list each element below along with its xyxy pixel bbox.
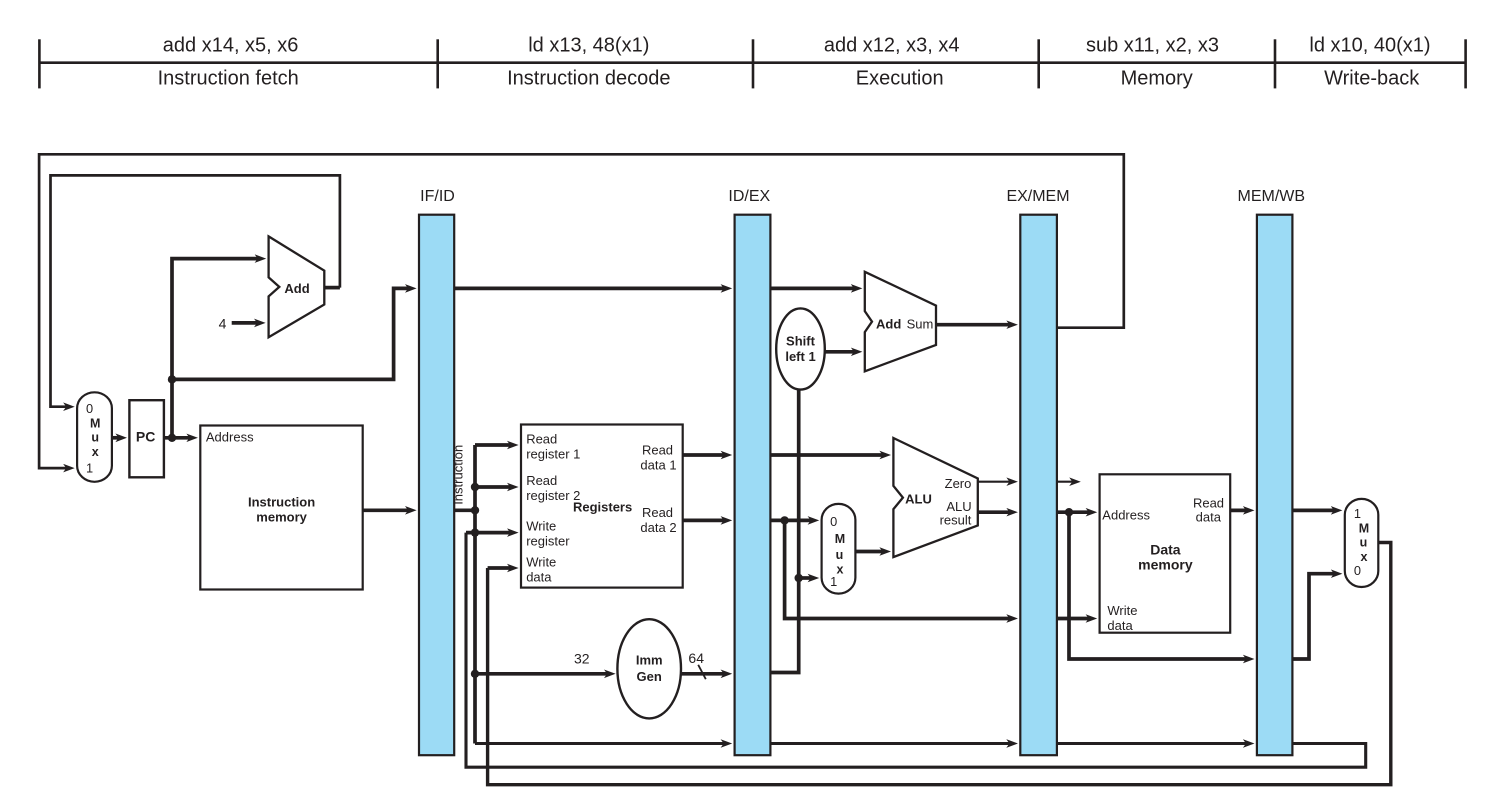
svg-text:u: u xyxy=(1360,536,1368,550)
svg-text:Write-back: Write-back xyxy=(1324,68,1420,90)
svg-text:1: 1 xyxy=(830,574,837,589)
svg-text:0: 0 xyxy=(1354,563,1361,578)
svg-text:register: register xyxy=(526,534,570,549)
svg-text:32: 32 xyxy=(574,651,590,667)
svg-text:PC: PC xyxy=(136,429,155,445)
svg-text:Write: Write xyxy=(526,519,556,534)
svg-text:Zero: Zero xyxy=(945,476,972,491)
svg-text:data: data xyxy=(1107,618,1133,633)
svg-text:4: 4 xyxy=(219,316,227,332)
svg-text:Read: Read xyxy=(642,505,673,520)
svg-text:ld x10, 40(x1): ld x10, 40(x1) xyxy=(1309,35,1430,57)
svg-text:x: x xyxy=(92,445,99,459)
svg-text:Instruction decode: Instruction decode xyxy=(507,68,670,90)
svg-text:1: 1 xyxy=(86,461,93,476)
svg-text:memory: memory xyxy=(256,510,307,525)
svg-text:result: result xyxy=(940,513,972,528)
svg-text:IF/ID: IF/ID xyxy=(420,188,455,205)
svg-text:Read: Read xyxy=(642,443,673,458)
svg-text:Sum: Sum xyxy=(907,317,934,332)
svg-text:0: 0 xyxy=(86,401,93,416)
svg-text:Write: Write xyxy=(526,554,556,569)
svg-text:ld x13, 48(x1): ld x13, 48(x1) xyxy=(528,35,649,57)
svg-text:EX/MEM: EX/MEM xyxy=(1006,188,1069,205)
svg-text:1: 1 xyxy=(1354,506,1361,521)
svg-text:memory: memory xyxy=(1138,556,1193,572)
svg-text:register 1: register 1 xyxy=(526,447,580,462)
svg-text:Instruction: Instruction xyxy=(248,495,315,510)
svg-text:Memory: Memory xyxy=(1121,68,1193,90)
svg-text:Read: Read xyxy=(526,432,557,447)
svg-text:64: 64 xyxy=(688,650,704,666)
svg-text:add x12, x3, x4: add x12, x3, x4 xyxy=(824,35,960,57)
svg-text:MEM/WB: MEM/WB xyxy=(1238,188,1306,205)
svg-text:x: x xyxy=(1361,550,1368,564)
svg-text:Gen: Gen xyxy=(637,669,662,684)
svg-text:M: M xyxy=(835,532,845,546)
svg-text:Execution: Execution xyxy=(856,68,944,90)
svg-text:Data: Data xyxy=(1150,541,1181,557)
svg-text:data: data xyxy=(1196,510,1222,525)
svg-text:add x14, x5, x6: add x14, x5, x6 xyxy=(163,35,299,57)
svg-text:data 2: data 2 xyxy=(640,520,676,535)
svg-text:M: M xyxy=(90,416,100,430)
svg-text:0: 0 xyxy=(830,514,837,529)
svg-text:u: u xyxy=(836,548,844,562)
svg-text:Add: Add xyxy=(876,317,901,332)
svg-text:Address: Address xyxy=(206,430,254,445)
svg-text:left 1: left 1 xyxy=(785,349,815,364)
svg-text:x: x xyxy=(837,563,844,577)
svg-text:data 1: data 1 xyxy=(640,458,676,473)
svg-text:Imm: Imm xyxy=(636,652,663,667)
svg-text:sub x11, x2, x3: sub x11, x2, x3 xyxy=(1086,35,1219,57)
svg-text:Address: Address xyxy=(1102,508,1150,523)
svg-text:data: data xyxy=(526,569,552,584)
svg-text:ID/EX: ID/EX xyxy=(728,188,770,205)
svg-text:Read: Read xyxy=(526,473,557,488)
svg-text:Add: Add xyxy=(284,281,309,296)
svg-text:Registers: Registers xyxy=(573,500,632,515)
svg-text:M: M xyxy=(1359,521,1369,535)
svg-text:Read: Read xyxy=(1193,496,1224,511)
svg-text:Write: Write xyxy=(1107,603,1137,618)
svg-text:ALU: ALU xyxy=(905,492,932,507)
svg-text:Instruction: Instruction xyxy=(451,445,466,505)
svg-text:Shift: Shift xyxy=(786,334,816,349)
svg-text:Instruction fetch: Instruction fetch xyxy=(158,68,299,90)
svg-text:u: u xyxy=(91,431,99,445)
